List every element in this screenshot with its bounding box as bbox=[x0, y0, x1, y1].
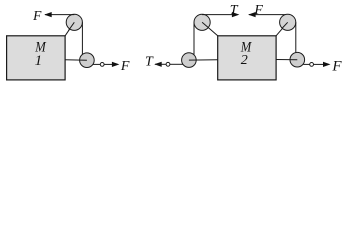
wire: vertical rope system 2 left bbox=[193, 22, 195, 55]
wire: rope P6 to ring (system 2 right) bbox=[303, 63, 309, 65]
wire: top rope T (system 2) bbox=[202, 14, 232, 16]
arrow F right (system 1) bbox=[112, 62, 120, 67]
wire: vertical rope system 1 bbox=[81, 22, 83, 54]
arrow F right (system 2) bbox=[323, 62, 331, 67]
svg-text:T: T bbox=[145, 54, 154, 69]
wire: rope ring to P5 (system 2 left) bbox=[170, 63, 183, 65]
wire: arrow rope right (system 2) bbox=[314, 63, 325, 65]
fixed pulley P1 bbox=[66, 14, 82, 30]
svg-text:1: 1 bbox=[35, 53, 43, 69]
axle rope block2 to P6 bbox=[276, 59, 297, 61]
wire: top rope F (system 2) bbox=[249, 14, 288, 16]
pulley axle line P3 bbox=[202, 22, 208, 27]
arrow F left (system 1 top) bbox=[44, 12, 52, 17]
pulley axle line P1 bbox=[69, 22, 75, 30]
svg-text:F: F bbox=[120, 59, 130, 74]
ring (system 1 right) bbox=[100, 63, 104, 67]
movable pulley P2 bbox=[80, 53, 95, 68]
block M2 bbox=[218, 36, 276, 80]
svg-text:F: F bbox=[331, 59, 342, 75]
wire: vertical rope system 2 right bbox=[295, 22, 297, 53]
movable pulley P6 bbox=[290, 52, 305, 67]
fixed pulley P3 bbox=[194, 14, 210, 30]
pulley axle line P4 bbox=[282, 22, 288, 28]
wire: arrow rope left (system 2) bbox=[155, 63, 166, 65]
wire: rope P2 to ring (system 1) bbox=[93, 63, 101, 65]
movable pulley P5 bbox=[182, 53, 197, 68]
ring (system 2 right) bbox=[310, 63, 314, 67]
pulley bracket P4 bbox=[276, 22, 288, 36]
pulley bracket P1 bbox=[65, 22, 74, 36]
svg-text:F: F bbox=[253, 3, 263, 18]
arrow T left (system 2 left) bbox=[154, 62, 162, 67]
svg-text:T: T bbox=[230, 3, 239, 18]
axle rope block1 to P2 bbox=[65, 59, 87, 62]
block M1 bbox=[7, 36, 66, 80]
ring (system 2 left) bbox=[166, 62, 170, 66]
arrow T right (system 2 top) bbox=[232, 12, 240, 17]
axle rope block2 to P5 bbox=[189, 59, 218, 61]
wire: top rope system 1 bbox=[45, 14, 74, 16]
svg-text:F: F bbox=[32, 8, 42, 23]
fixed pulley P4 bbox=[280, 14, 296, 30]
pulley bracket P3 bbox=[209, 28, 218, 36]
arrow F left (system 2 top) bbox=[248, 12, 256, 17]
svg-text:2: 2 bbox=[241, 53, 248, 68]
wire: arrow rope right (system 1) bbox=[104, 63, 113, 65]
